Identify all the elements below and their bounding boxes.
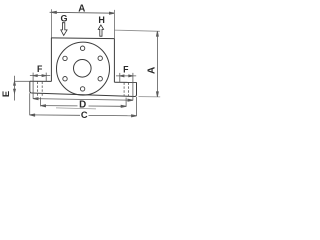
svg-text:A: A [146,67,157,74]
left foot top edge [30,80,52,82]
bolt hole top [80,46,84,50]
dimension A top: dimension line with arrows [50,11,115,14]
svg-text:E: E [0,91,11,97]
dimension A right (vertical overall height) [114,30,160,97]
body top edge [51,37,114,40]
svg-text:H: H [98,15,105,25]
hidden slot right foot (dashed) [124,83,129,97]
right foot top edge [114,81,136,83]
bolt hole lower-left [63,77,67,81]
body outline (housing front view) [30,38,137,97]
dimension E left (vertical, small) [14,76,30,101]
dimension line outer span bottom [33,98,133,102]
hollow arrow H pointing up (air outlet) [98,25,103,36]
svg-text:A: A [78,3,85,14]
extension line left body edge [50,9,52,38]
dimension F right [116,73,136,101]
center bore circle [74,60,92,78]
body right edge [113,39,115,83]
base bottom edge [32,93,135,97]
extension line right body edge [113,10,115,39]
flange outer circle [57,42,110,95]
bolt hole bottom [80,87,84,91]
left foot outer edge [30,81,32,93]
bolt hole upper-right [98,56,102,60]
svg-text:F: F [37,64,43,74]
svg-text:D: D [79,99,86,110]
svg-text:F: F [123,65,129,75]
bolt hole lower-right [98,77,102,81]
faint extra scan line under D [56,108,96,109]
dimension C bottom (overall width) [30,93,137,117]
svg-text:C: C [81,110,88,120]
dimension D line (between foot slot centers) [41,97,127,107]
svg-text:G: G [60,14,67,24]
body left edge [50,38,52,82]
hidden slot left foot (dashed) [37,82,42,97]
bolt hole upper-left [63,56,67,60]
hollow arrow G pointing down (air inlet) [61,23,67,36]
right foot outer edge [135,82,137,96]
dimension F left [30,73,50,99]
